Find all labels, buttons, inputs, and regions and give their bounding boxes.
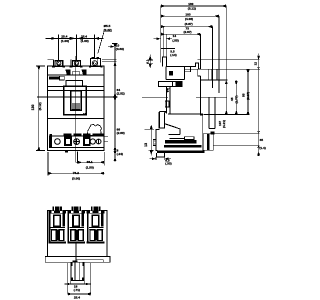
- ext lines lug3 right: [102, 58, 117, 60]
- bottom dim2 line: [48, 152, 104, 175]
- dropper from dim B: [218, 16, 220, 93]
- svg-text:45: 45: [230, 97, 234, 101]
- side centerline left: [142, 96, 168, 98]
- svg-text:(3.00): (3.00): [72, 177, 80, 181]
- svg-text:(.71): (.71): [74, 288, 80, 292]
- bottom flange: [45, 256, 110, 262]
- side mid body line: [168, 113, 203, 115]
- label bar black: [49, 76, 59, 79]
- inner top band line: [48, 74, 105, 76]
- extension line pole3: [94, 35, 96, 59]
- svg-text:(2.17): (2.17): [246, 92, 250, 100]
- bottom view body: [48, 211, 108, 257]
- pole 2 structure: [67, 211, 85, 244]
- svg-text:(5.12): (5.12): [38, 102, 42, 110]
- pole 3 structure: [87, 211, 105, 244]
- svg-text:(1.4): (1.4): [259, 146, 265, 150]
- svg-text:0.1: 0.1: [145, 59, 149, 64]
- right vertical dim v3: [247, 69, 250, 114]
- svg-text:(2.60): (2.60): [117, 131, 125, 135]
- svg-text:(3.87): (3.87): [185, 22, 193, 26]
- escutcheon block side: [159, 81, 183, 86]
- bottom dim1 line: [76, 152, 105, 166]
- rating label rect: [66, 81, 83, 87]
- terminal cover seam: [185, 66, 191, 79]
- ext line handle tip vertical: [160, 6, 162, 63]
- right vertical v1 with depth dim: [225, 6, 228, 115]
- toggle grip lines: [72, 104, 80, 110]
- svg-text:25.4: 25.4: [61, 35, 67, 39]
- svg-text:(2.87): (2.87): [184, 30, 192, 34]
- rear clamp black bar: [207, 134, 209, 151]
- svg-text:14: 14: [173, 34, 177, 38]
- tab dim1: [65, 281, 91, 285]
- svg-text:(2.52): (2.52): [117, 92, 125, 96]
- side top dim D: [161, 33, 201, 36]
- dropper from dim C: [212, 27, 214, 88]
- ext line lug plane y59.8: [198, 59, 260, 61]
- terminal lug 2 top: [70, 60, 83, 68]
- extension line pole1: [58, 35, 60, 61]
- base bar2 black bottom: [164, 145, 202, 147]
- escutcheon frame: [64, 86, 87, 114]
- flange black tick: [73, 260, 78, 262]
- cap 2: [71, 206, 81, 210]
- svg-text:55: 55: [242, 93, 246, 97]
- cap 3: [91, 206, 101, 210]
- ext line front face vertical: [165, 34, 167, 66]
- terminal 2 dark square: [83, 137, 91, 146]
- ext line terminal top y69.2: [190, 68, 260, 70]
- side front lower face: [165, 101, 169, 107]
- terminal lug 1 top: [48, 60, 66, 68]
- bottom view center vline: [75, 244, 77, 263]
- rear clamp outline: [203, 134, 213, 151]
- svg-text:(.55): (.55): [172, 39, 178, 43]
- rear channel: [209, 97, 215, 129]
- ext line base top right: [204, 114, 250, 116]
- base bar1 black: [165, 140, 197, 143]
- right vertical dim v2: [235, 81, 238, 115]
- body hline lower: [48, 89, 105, 91]
- left edge dark bar: [50, 134, 52, 148]
- pole 1 structure: [48, 211, 66, 244]
- escutcheon bottom line: [166, 79, 184, 81]
- base small rect outline: [185, 137, 195, 140]
- svg-text:(.14): (.14): [170, 53, 176, 57]
- svg-text:130: 130: [31, 105, 35, 111]
- rail ext top: [213, 132, 259, 134]
- svg-text:25.4: 25.4: [74, 295, 80, 299]
- center notch rect on band: [72, 72, 79, 75]
- ext line second vertical: [163, 27, 165, 58]
- terminal 2 circle phillips: [74, 139, 80, 145]
- left base dim: [145, 125, 155, 156]
- svg-text:(.24): (.24): [117, 152, 123, 156]
- v4 small dim top: [257, 53, 260, 69]
- side centerline right: [196, 97, 227, 99]
- small dim 14: [154, 37, 172, 40]
- svg-text:12: 12: [253, 62, 257, 66]
- terminal 3 circle: [90, 139, 95, 144]
- front foot outline: [156, 129, 160, 150]
- foot bottom tab: [157, 153, 165, 157]
- lower body line: [48, 118, 105, 120]
- trip window blob 1: [65, 70, 70, 75]
- rail dim vertical v4 lower: [257, 69, 260, 156]
- side right shoulder: [198, 69, 201, 76]
- svg-text:76.2: 76.2: [73, 171, 79, 175]
- svg-text:(0.39): (0.39): [116, 47, 124, 51]
- svg-text:(1.77): (1.77): [234, 95, 238, 103]
- rear black square: [211, 132, 215, 135]
- small white rect outline: [59, 76, 64, 80]
- side view handle tip tab: [163, 57, 167, 67]
- body hline upper: [48, 85, 105, 87]
- ext line y48.5: [161, 48, 175, 50]
- rear terminal block: [201, 69, 217, 80]
- rail ext bottom: [213, 145, 259, 147]
- terminal 3 slotted circle: [96, 139, 101, 144]
- svg-text:35: 35: [260, 138, 264, 142]
- centerline horizontal front view: [37, 96, 118, 98]
- terminal 1 dark square: [64, 137, 72, 146]
- pivot knob: [167, 88, 170, 93]
- centerline vertical pole2: [75, 56, 77, 162]
- cap 1: [52, 206, 62, 210]
- svg-text:25.4: 25.4: [81, 35, 87, 39]
- accessory cloud outline: [87, 124, 101, 136]
- front flange: [159, 112, 166, 128]
- svg-text:(5.12): (5.12): [188, 7, 196, 11]
- bottom terminal row band: [50, 136, 104, 148]
- dropper from dim D: [200, 34, 202, 69]
- side top dim B: [161, 15, 219, 18]
- base bottom black band: [157, 150, 204, 153]
- side mini dim top left: [148, 55, 154, 68]
- back plane upper: [200, 76, 202, 115]
- row ext ticks right: [104, 136, 108, 141]
- mounting tab bottom: [65, 151, 68, 153]
- svg-text:38.1: 38.1: [87, 160, 93, 164]
- leader line to lug3: [98, 32, 104, 54]
- svg-text:130: 130: [188, 2, 193, 6]
- terminal 1 circle: [55, 139, 61, 145]
- front view body outline: [48, 66, 105, 151]
- small rail rect left: [153, 140, 156, 146]
- right vertical dimension line of front view: [108, 43, 118, 161]
- svg-text:(1.50): (1.50): [86, 166, 94, 170]
- extension line pole2: [75, 35, 77, 61]
- side top dim A: [161, 5, 227, 8]
- tab dim2: [68, 263, 91, 296]
- svg-text:13: 13: [144, 143, 148, 147]
- flange to base slope: [165, 124, 185, 139]
- toggle handle: [71, 91, 82, 111]
- mounting tab below: [71, 262, 84, 280]
- top dimension line hole pitch: [46, 37, 104, 40]
- terminal lug 3 top: [89, 57, 103, 68]
- ext line y80: [201, 79, 228, 81]
- svg-text:(.33): (.33): [165, 161, 171, 165]
- side view front face: [165, 66, 167, 79]
- lower front column: [167, 86, 170, 114]
- svg-text:(4.06): (4.06): [185, 17, 193, 21]
- back plane lower: [200, 115, 203, 150]
- svg-text:(1.00): (1.00): [61, 39, 69, 43]
- small square lower right of frame: [83, 113, 85, 115]
- handle black block: [169, 71, 173, 76]
- left vertical dimension line overall height: [36, 66, 45, 151]
- trip window blob 2: [82, 70, 87, 75]
- svg-text:(4.21): (4.21): [222, 120, 226, 128]
- bottom dim side view: [150, 157, 172, 160]
- side top dim C: [161, 25, 213, 28]
- side view top edge: [166, 63, 200, 69]
- svg-text:(1.00): (1.00): [81, 39, 89, 43]
- svg-text:103: 103: [185, 12, 190, 16]
- bottom terminal row top black bar: [63, 134, 104, 136]
